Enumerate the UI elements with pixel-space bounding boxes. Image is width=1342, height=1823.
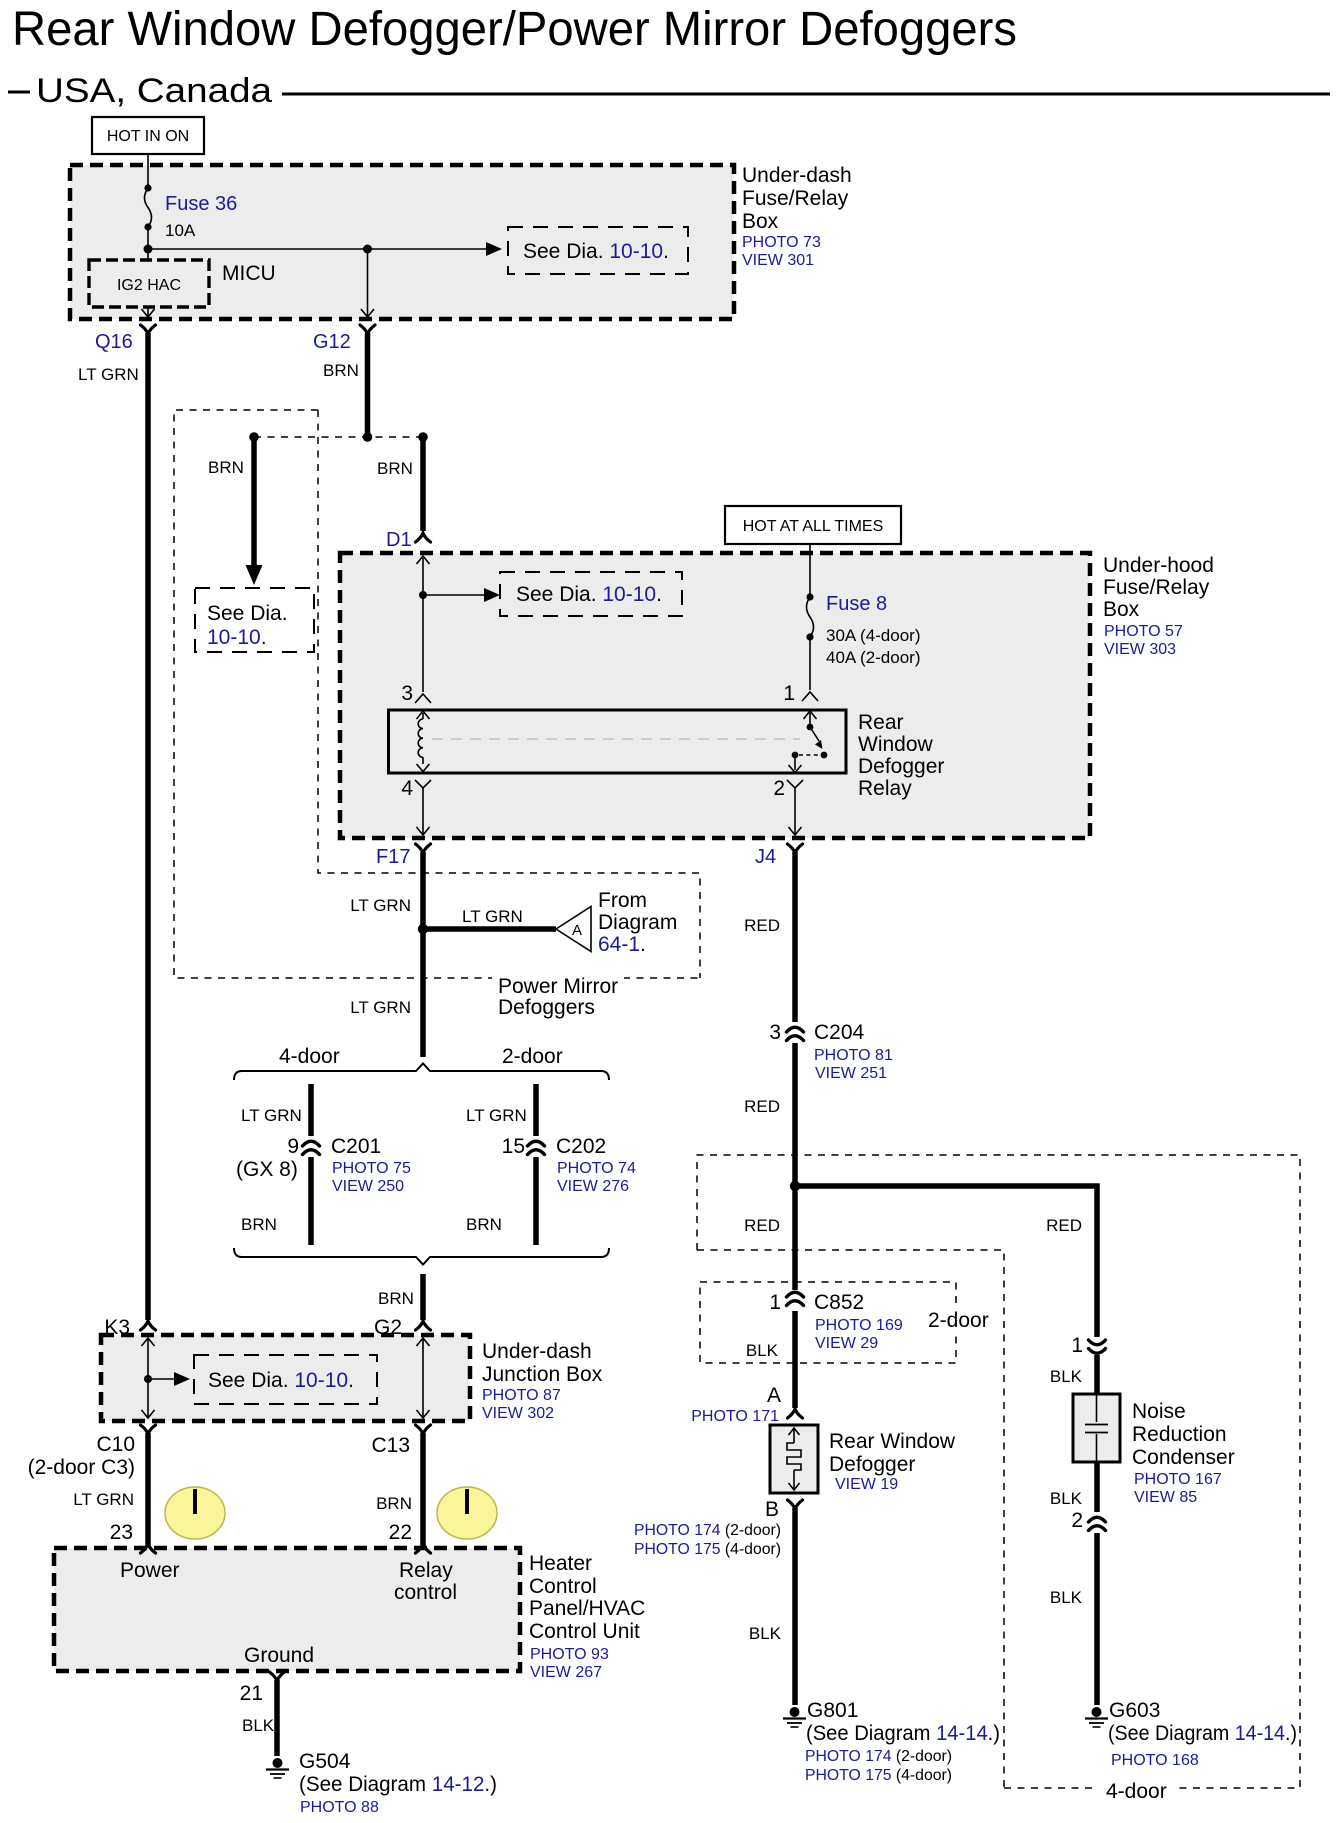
split brace top xyxy=(234,1064,609,1081)
svg-text:VIEW 29: VIEW 29 xyxy=(815,1335,878,1352)
rear window defogger box xyxy=(770,1425,818,1493)
svg-text:BLK: BLK xyxy=(1050,1588,1083,1607)
wire fuse 8 to pin 1 xyxy=(809,637,811,690)
svg-text:LT GRN: LT GRN xyxy=(73,1490,134,1509)
svg-text:BLK: BLK xyxy=(1050,1489,1083,1508)
svg-text:21: 21 xyxy=(240,1682,263,1705)
svg-text:BRN: BRN xyxy=(378,1289,414,1308)
pin 1 fork xyxy=(802,692,818,701)
svg-text:2-door: 2-door xyxy=(502,1045,563,1068)
svg-text:PHOTO 73: PHOTO 73 xyxy=(742,234,821,251)
svg-text:15: 15 xyxy=(502,1135,525,1158)
svg-text:64-1.: 64-1. xyxy=(598,933,646,956)
svg-text:(See Diagram 14-12.): (See Diagram 14-12.) xyxy=(299,1773,497,1796)
under-hood fuse/relay box xyxy=(340,553,1090,838)
wire HOT IN ON to fuse 36 xyxy=(147,154,149,188)
svg-text:2: 2 xyxy=(773,777,785,800)
2-door dashed region xyxy=(697,1250,1004,1788)
dashed junction link wire xyxy=(254,436,423,438)
svg-text:D1: D1 xyxy=(386,529,412,551)
svg-text:PHOTO 175 (4-door): PHOTO 175 (4-door) xyxy=(634,1541,781,1558)
svg-text:LT GRN: LT GRN xyxy=(462,907,523,926)
svg-text:22: 22 xyxy=(389,1521,412,1544)
svg-text:PHOTO 81: PHOTO 81 xyxy=(814,1047,893,1064)
svg-text:LT GRN: LT GRN xyxy=(78,365,139,384)
svg-text:VIEW 267: VIEW 267 xyxy=(530,1664,602,1681)
svg-text:HOT IN ON: HOT IN ON xyxy=(107,128,189,145)
svg-text:A: A xyxy=(572,922,582,939)
svg-text:BRN: BRN xyxy=(466,1215,502,1234)
svg-text:C201: C201 xyxy=(331,1135,381,1158)
pin D1 male arrow xyxy=(422,558,424,595)
wire node to condenser column xyxy=(795,1186,1097,1337)
svg-text:VIEW 251: VIEW 251 xyxy=(815,1065,887,1082)
svg-text:(2-door C3): (2-door C3) xyxy=(28,1456,135,1479)
svg-text:VIEW 301: VIEW 301 xyxy=(742,252,814,269)
wire C852 to A xyxy=(792,1311,798,1408)
connector C202 xyxy=(528,1141,545,1146)
svg-text:See Dia. 10-10.: See Dia. 10-10. xyxy=(523,240,669,263)
svg-text:LT GRN: LT GRN xyxy=(241,1106,302,1125)
svg-text:PHOTO 88: PHOTO 88 xyxy=(300,1799,379,1816)
connector J4 xyxy=(788,844,803,853)
connector K3 xyxy=(141,1321,156,1330)
svg-text:(GX 8): (GX 8) xyxy=(236,1158,298,1181)
svg-text:Relay: Relay xyxy=(399,1559,453,1582)
pin 21 fork xyxy=(270,1672,285,1681)
svg-text:PHOTO 171: PHOTO 171 xyxy=(691,1408,779,1425)
svg-text:3: 3 xyxy=(769,1021,781,1044)
svg-text:Diagram: Diagram xyxy=(598,911,677,934)
coil to pin 4 arrow xyxy=(422,757,424,764)
node A3 xyxy=(418,432,428,442)
option oval right xyxy=(437,1487,497,1539)
svg-text:control: control xyxy=(394,1581,457,1604)
svg-text:RED: RED xyxy=(744,916,780,935)
pin 2 wire to box edge xyxy=(794,788,796,834)
C852 2-door dashed box xyxy=(700,1282,956,1363)
relay centerline xyxy=(432,738,800,740)
4-door label xyxy=(1098,1778,1176,1802)
pin 2 fork below relay xyxy=(787,780,803,788)
svg-text:G603: G603 xyxy=(1109,1699,1160,1722)
node at triangle branch xyxy=(418,924,428,934)
wire to See Dia arrow xyxy=(148,248,489,250)
HOT AT ALL TIMES box xyxy=(725,506,901,544)
connector C204 xyxy=(787,1027,804,1032)
svg-text:Fuse 8: Fuse 8 xyxy=(826,593,887,615)
svg-text:Condenser: Condenser xyxy=(1132,1446,1235,1469)
noise reduction condenser box xyxy=(1073,1394,1120,1462)
connector F17 xyxy=(416,844,431,853)
svg-text:Q16: Q16 xyxy=(95,331,133,353)
svg-text:BRN: BRN xyxy=(241,1215,277,1234)
connector C852 xyxy=(787,1292,804,1297)
node to See Dia (mid) xyxy=(419,591,427,599)
svg-text:Fuse/Relay: Fuse/Relay xyxy=(1103,576,1210,599)
svg-text:J4: J4 xyxy=(755,846,776,868)
svg-text:C202: C202 xyxy=(556,1135,606,1158)
svg-text:G12: G12 xyxy=(313,331,351,353)
wire IG2 HAC to Q16 xyxy=(147,307,149,316)
svg-text:Power Mirror: Power Mirror xyxy=(498,975,618,998)
pin 3 male arrow inside relay xyxy=(422,713,424,719)
svg-text:2-door: 2-door xyxy=(928,1309,989,1332)
fuse F8 xyxy=(809,544,811,597)
ground G801 xyxy=(790,1707,800,1717)
svg-text:Under-dash: Under-dash xyxy=(742,164,852,187)
connector C13 xyxy=(416,1425,431,1434)
wire F17 down xyxy=(420,852,426,1057)
svg-text:BRN: BRN xyxy=(323,361,359,380)
svg-text:RED: RED xyxy=(1046,1216,1082,1235)
svg-text:VIEW 19: VIEW 19 xyxy=(835,1476,898,1493)
wire BRN to D1 xyxy=(420,437,426,531)
svg-text:PHOTO 168: PHOTO 168 xyxy=(1111,1752,1199,1769)
svg-text:VIEW 85: VIEW 85 xyxy=(1134,1489,1197,1506)
wire fuse to junction xyxy=(147,227,149,260)
svg-text:PHOTO 87: PHOTO 87 xyxy=(482,1387,561,1404)
svg-text:Rear Window Defogger/Power Mir: Rear Window Defogger/Power Mirror Defogg… xyxy=(12,3,1017,56)
power mirror defoggers label xyxy=(492,972,624,1018)
K3-C10 through wire xyxy=(147,1339,149,1417)
wire C13 to 22 xyxy=(420,1433,426,1546)
pin A fork xyxy=(788,1409,803,1418)
wire C10 to 23 xyxy=(145,1433,151,1546)
wire 4-door branch upper xyxy=(308,1084,314,1136)
svg-text:3: 3 xyxy=(401,682,413,705)
node to See Dia (junction box) xyxy=(144,1375,152,1383)
svg-text:23: 23 xyxy=(110,1521,133,1544)
svg-text:1: 1 xyxy=(1071,1334,1083,1357)
svg-text:VIEW 276: VIEW 276 xyxy=(557,1178,629,1195)
svg-text:See Dia. 10-10.: See Dia. 10-10. xyxy=(208,1369,354,1392)
svg-text:PHOTO 174 (2-door): PHOTO 174 (2-door) xyxy=(634,1522,781,1539)
svg-text:Heater: Heater xyxy=(529,1552,592,1575)
svg-text:Fuse/Relay: Fuse/Relay xyxy=(742,187,849,210)
svg-text:Relay: Relay xyxy=(858,777,912,800)
svg-text:Box: Box xyxy=(1103,598,1140,621)
svg-text:(See Diagram 14-14.): (See Diagram 14-14.) xyxy=(806,1722,1000,1745)
svg-text:Fuse 36: Fuse 36 xyxy=(165,193,237,215)
wire down to relay pin 3 xyxy=(422,595,424,692)
pin 2 wire inside relay xyxy=(794,755,796,770)
svg-text:Under-dash: Under-dash xyxy=(482,1340,592,1363)
connector D1 xyxy=(416,533,431,542)
wire 21 to G504 xyxy=(274,1680,280,1756)
svg-text:VIEW 302: VIEW 302 xyxy=(482,1405,554,1422)
svg-text:C852: C852 xyxy=(814,1291,864,1314)
See Dia. 10-10. box (left) xyxy=(195,588,314,652)
wire 2 to G603 xyxy=(1094,1533,1100,1705)
svg-text:LT GRN: LT GRN xyxy=(350,896,411,915)
node A1 xyxy=(249,432,259,442)
svg-text:See Dia.: See Dia. xyxy=(207,602,288,625)
pin 3 fork xyxy=(415,694,431,703)
wire merge to G2 xyxy=(420,1274,426,1320)
subtitle rule line xyxy=(282,93,1330,96)
wire 2-door branch lower xyxy=(533,1157,539,1245)
wire node to G12 xyxy=(367,249,369,316)
svg-text:4-door: 4-door xyxy=(279,1045,340,1068)
svg-text:From: From xyxy=(598,889,647,912)
pin 4 fork below relay xyxy=(415,780,431,788)
wire 4-door branch lower xyxy=(308,1157,314,1245)
under-dash fuse/relay box xyxy=(70,165,734,319)
svg-text:RED: RED xyxy=(744,1097,780,1116)
svg-text:MICU: MICU xyxy=(222,262,276,285)
relay switch xyxy=(807,724,814,731)
svg-text:G504: G504 xyxy=(299,1750,351,1773)
IG2 HAC box MICU xyxy=(89,260,209,307)
svg-text:Ground: Ground xyxy=(244,1644,314,1667)
svg-text:10-10.: 10-10. xyxy=(207,626,267,649)
svg-text:4: 4 xyxy=(401,777,413,800)
svg-text:PHOTO 75: PHOTO 75 xyxy=(332,1160,411,1177)
svg-text:4-door: 4-door xyxy=(1106,1780,1167,1803)
wire condenser to 2 xyxy=(1094,1462,1100,1512)
svg-text:VIEW 303: VIEW 303 xyxy=(1104,641,1176,658)
pin 4 wire to box edge xyxy=(422,788,424,834)
fuse F36 xyxy=(144,184,151,191)
connector 2 (condenser) xyxy=(1089,1517,1106,1522)
svg-text:(See Diagram 14-14.): (See Diagram 14-14.) xyxy=(1108,1722,1297,1745)
power mirror defoggers dotted region xyxy=(174,410,700,978)
svg-text:Under-hood: Under-hood xyxy=(1103,554,1214,577)
svg-text:See Dia. 10-10.: See Dia. 10-10. xyxy=(516,583,662,606)
See Dia. 10-10. box (top) xyxy=(508,227,688,274)
svg-text:C10: C10 xyxy=(96,1433,135,1456)
svg-text:BRN: BRN xyxy=(208,458,244,477)
svg-text:BLK: BLK xyxy=(242,1716,275,1735)
svg-text:G801: G801 xyxy=(807,1699,858,1722)
wire to triangle A xyxy=(423,926,556,932)
G2-C13 through wire xyxy=(422,1339,424,1417)
svg-text:BLK: BLK xyxy=(749,1624,782,1643)
svg-text:Rear: Rear xyxy=(858,711,904,734)
svg-text:PHOTO 167: PHOTO 167 xyxy=(1134,1471,1222,1488)
pin 22 fork xyxy=(416,1544,431,1553)
svg-text:IG2 HAC: IG2 HAC xyxy=(117,277,181,294)
svg-text:BLK: BLK xyxy=(1050,1367,1083,1386)
option oval left xyxy=(165,1487,225,1539)
under-dash junction box xyxy=(101,1335,470,1421)
svg-text:PHOTO 93: PHOTO 93 xyxy=(530,1646,609,1663)
svg-text:Rear Window: Rear Window xyxy=(829,1430,956,1453)
svg-text:Control: Control xyxy=(529,1575,597,1598)
connector C201 xyxy=(303,1141,320,1146)
wire BRN arrow to See Dia (left) xyxy=(251,437,257,566)
svg-text:LT GRN: LT GRN xyxy=(350,998,411,1017)
svg-text:LT GRN: LT GRN xyxy=(466,1106,527,1125)
svg-text:1: 1 xyxy=(783,682,795,705)
svg-text:PHOTO 57: PHOTO 57 xyxy=(1104,623,1183,640)
svg-text:PHOTO 174 (2-door): PHOTO 174 (2-door) xyxy=(805,1748,952,1765)
svg-text:VIEW 250: VIEW 250 xyxy=(332,1178,404,1195)
svg-text:PHOTO 74: PHOTO 74 xyxy=(557,1160,636,1177)
pin B fork xyxy=(788,1500,803,1509)
svg-text:Box: Box xyxy=(742,210,779,233)
connector G2 xyxy=(416,1321,431,1330)
wire to condenser xyxy=(1094,1355,1100,1396)
heater control panel HVAC box xyxy=(54,1548,520,1671)
svg-text:Panel/HVAC: Panel/HVAC xyxy=(529,1597,645,1620)
svg-text:F17: F17 xyxy=(376,846,410,868)
svg-text:Control Unit: Control Unit xyxy=(529,1620,640,1643)
from-diagram triangle A xyxy=(556,907,591,952)
svg-text:40A (2-door): 40A (2-door) xyxy=(826,648,921,667)
ground G603 xyxy=(1092,1707,1102,1717)
subtitle dash left xyxy=(8,91,30,94)
node on horizontal wire xyxy=(363,245,372,254)
wire B to G801 xyxy=(792,1508,798,1705)
See Dia. 10-10. box (junction) xyxy=(194,1355,377,1404)
svg-text:Reduction: Reduction xyxy=(1132,1423,1227,1446)
relay coil xyxy=(418,719,423,757)
svg-text:Window: Window xyxy=(858,733,934,756)
svg-text:Junction Box: Junction Box xyxy=(482,1363,603,1386)
svg-text:C13: C13 xyxy=(371,1434,410,1457)
svg-text:PHOTO 169: PHOTO 169 xyxy=(815,1317,903,1334)
svg-text:Noise: Noise xyxy=(1132,1400,1186,1423)
condenser element xyxy=(1096,1394,1098,1422)
HOT IN ON box xyxy=(92,117,204,154)
defogger element xyxy=(793,1429,795,1443)
svg-text:PHOTO 175 (4-door): PHOTO 175 (4-door) xyxy=(805,1767,952,1784)
svg-text:Defogger: Defogger xyxy=(829,1453,915,1476)
svg-text:BRN: BRN xyxy=(376,1494,412,1513)
pin 1 male arrow inside relay xyxy=(809,713,811,726)
connector 1 (condenser) xyxy=(1089,1340,1106,1345)
wire C204 to node xyxy=(792,1043,798,1290)
svg-text:BRN: BRN xyxy=(377,459,413,478)
relay R1 box xyxy=(389,710,847,773)
wire J4 to C204 xyxy=(792,852,798,1022)
svg-text:BLK: BLK xyxy=(746,1341,779,1360)
svg-text:1: 1 xyxy=(769,1291,781,1314)
svg-text:30A (4-door): 30A (4-door) xyxy=(826,626,921,645)
See Dia. 10-10. box (mid) xyxy=(500,572,682,616)
svg-text:HOT AT ALL TIMES: HOT AT ALL TIMES xyxy=(743,518,884,535)
svg-text:A: A xyxy=(767,1384,781,1407)
node A2 xyxy=(363,432,373,442)
svg-text:10A: 10A xyxy=(165,221,196,240)
node RED branch xyxy=(790,1181,800,1191)
svg-text:B: B xyxy=(765,1498,779,1521)
svg-text:2: 2 xyxy=(1071,1509,1083,1532)
svg-text:RED: RED xyxy=(744,1216,780,1235)
2-door label xyxy=(922,1306,996,1332)
wire 2-door branch upper xyxy=(533,1084,539,1136)
svg-text:Defogger: Defogger xyxy=(858,755,944,778)
svg-text:Power: Power xyxy=(120,1559,180,1582)
connector C10 xyxy=(141,1425,156,1434)
merge brace bottom xyxy=(234,1248,609,1265)
ground G504 xyxy=(273,1758,283,1768)
svg-text:Defoggers: Defoggers xyxy=(498,996,595,1019)
4-door dashed region xyxy=(697,1155,1300,1788)
node below fuse 36 xyxy=(144,245,153,254)
wire Q16 to K3 xyxy=(145,333,151,1320)
svg-text:C204: C204 xyxy=(814,1021,865,1044)
connector G12 xyxy=(360,325,375,334)
wire G12 down to junction row xyxy=(365,333,371,437)
connector Q16 xyxy=(141,325,156,334)
svg-text:9: 9 xyxy=(287,1135,299,1158)
pin 23 fork xyxy=(141,1544,156,1553)
svg-text:USA, Canada: USA, Canada xyxy=(36,72,272,110)
